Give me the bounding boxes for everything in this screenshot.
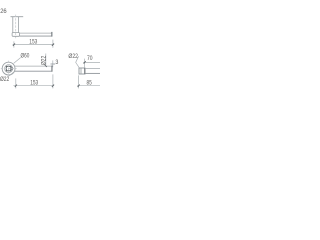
front view: square fixing [6,66,10,70]
front view: bar top edge [14,65,51,67]
top view dim 153: right extension line [52,40,54,48]
background [0,0,100,100]
top view: bar bottom edge [20,35,52,37]
top view dim 153: left extension line [13,41,15,47]
front view dim Ø22 of bar: vertical dimension line [45,54,47,66]
front view dim Ø22 of bar: arrow tick [45,65,47,67]
svg-text:70: 70 [87,55,93,62]
dim 3 at bar end: extension line [52,60,54,67]
svg-text:3: 3 [55,59,58,66]
top view: post left side [12,17,14,33]
svg-text:153: 153 [30,80,38,87]
front view dim 153: dimension line [13,85,54,87]
front view: inner circle [5,65,13,73]
top view dim 153: right tick [52,43,54,45]
svg-text:26: 26 [0,8,7,15]
leader line for Ø22 (side) [76,56,80,68]
side view dim 85: dimension line [77,85,100,87]
side view: plate right edge (dark) [84,68,86,74]
side view: post top edge [85,68,100,70]
leader line for Ø60 [14,58,21,64]
top view dim 153: left tick [13,43,15,45]
svg-text:153: 153 [29,39,37,46]
svg-text:Ø22: Ø22 [68,53,78,60]
side view: plate inner edge [80,68,82,74]
top view dim 153: dimension line [13,44,55,46]
side view: plate block [79,68,85,74]
top view: post right side [18,17,20,33]
side view: post bottom edge [85,72,100,74]
side view dim 70: tick [84,61,86,63]
front view: bar end cap [51,66,52,72]
top view: wall line [11,16,24,18]
leader line for Ø22 (front) [9,71,14,76]
side view dim 70: dimension line [83,61,100,63]
dim 3 at bar end: tick line [51,63,56,65]
side view dim 85: tick [78,85,80,87]
svg-text:Ø22: Ø22 [0,76,10,83]
top view: elbow block [12,33,20,37]
front view: bar bottom edge [14,70,51,72]
front view dim 153: left extension line [15,78,17,88]
svg-text:Ø60: Ø60 [21,53,30,60]
front view dim 153: left tick [15,85,17,87]
top view: bar end cap [51,32,52,37]
top view: bar top edge [20,32,52,34]
front view dim 153: right extension line [52,74,54,88]
side view dim 70: extension line [84,59,86,68]
svg-text:Ø22: Ø22 [40,55,47,65]
front view: horizontal centerline (dashed) [1,68,17,70]
svg-text:85: 85 [87,79,93,86]
front view: fixing tab [11,68,13,70]
front view dim 153: right tick [52,85,54,87]
front view: vertical centerline (dashed) [8,61,10,77]
top view: post centerline (dashed) [15,15,17,39]
side view dim 85: extension line [78,75,80,88]
front view: rosette outer circle [2,62,15,75]
